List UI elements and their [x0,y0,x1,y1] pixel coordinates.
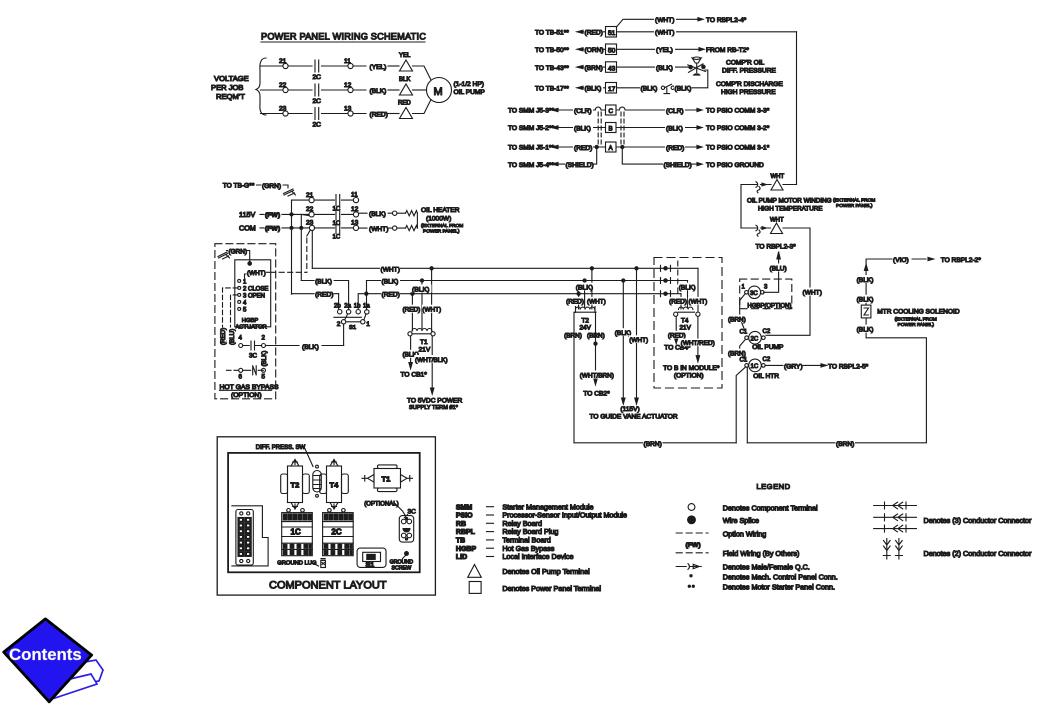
transformer T2 layout [281,460,310,510]
svg-text:(GRN): (GRN) [262,183,281,190]
wire V1 21 feed down [291,200,293,294]
terminal 22b [309,212,314,217]
svg-text:TO RBPL2-2*: TO RBPL2-2* [941,257,982,264]
svg-text:A: A [609,145,614,152]
wire triangle2 to motor [413,89,427,91]
wire BRN bottom left [574,442,736,444]
svg-text:22: 22 [279,82,287,89]
terminal 1a [365,310,369,314]
contact 1C row1 [336,195,340,206]
svg-text:TO TB-43**: TO TB-43** [535,65,569,72]
svg-text:OIL PUMP MOTOR WINDING: OIL PUMP MOTOR WINDING [747,198,832,205]
svg-text:COMP'R OIL: COMP'R OIL [726,60,765,67]
svg-text:OIL HTR: OIL HTR [753,373,779,380]
pole 1 [361,320,365,324]
svg-text:1C: 1C [751,364,759,370]
svg-text:(BLK): (BLK) [666,125,683,132]
svg-text:(BLK): (BLK) [857,327,874,334]
legend square power panel terminal [469,582,481,594]
svg-text:(FW): (FW) [265,226,280,233]
contact 3C lower pin6 [239,368,243,372]
legend 2 conductor connector symbol [883,539,902,560]
svg-text:(FW): (FW) [686,542,701,549]
svg-text:VOLTAGE: VOLTAGE [214,74,249,83]
svg-text:(BRN): (BRN) [836,441,854,448]
svg-text:WHT: WHT [771,174,785,180]
QC male/female bottom [751,225,771,236]
svg-text:(YEL): (YEL) [370,64,387,71]
junction V1-COM [290,226,293,229]
svg-text:TO RBPL2-4*: TO RBPL2-4* [706,17,747,24]
terminal box C [606,105,617,115]
svg-text:YEL: YEL [399,53,411,59]
svg-text:(BLK): (BLK) [656,65,673,72]
svg-text:(BLK): (BLK) [302,344,319,351]
terminal box B [606,123,617,133]
terminal 23b [309,225,314,230]
svg-text:(OPTION): (OPTION) [231,392,262,399]
wire phase 1 [261,65,367,67]
svg-text:TO SMM J5-1**: TO SMM J5-1** [508,145,554,152]
label BLK lower [856,325,876,334]
wire WHT bus [312,267,698,269]
terminal box 51 [606,27,617,38]
svg-text:(GRN): (GRN) [229,248,247,255]
svg-text:(YEL): (YEL) [656,47,673,54]
svg-text:1: 1 [366,321,370,328]
terminal box 43 [606,62,617,73]
switch S1 [334,304,370,331]
HGBP actuator box [235,260,271,327]
wire T4 to CB4 [675,317,677,339]
svg-text:(BLK): (BLK) [615,330,631,337]
svg-text:13: 13 [351,219,359,226]
svg-text:SCREW: SCREW [392,565,412,571]
label (WHT) actuator [245,272,270,278]
wire phase row 21-11 [292,199,354,201]
svg-text:HIGH TEMPERATURE: HIGH TEMPERATURE [758,206,823,213]
junction shield-right [621,145,624,148]
junction shield-left [595,145,598,148]
transformer T2 primary taps [579,268,592,309]
wire WHT down to 2C C2 [766,228,810,335]
legend acronym TB [456,536,551,545]
terminal 12b [353,212,358,217]
svg-text:T4: T4 [330,481,340,490]
wire RED bus [292,293,682,295]
chassis ground symbol top [284,189,296,196]
svg-text:RBPL: RBPL [456,529,476,536]
svg-text:WHT: WHT [770,218,784,224]
junction T2 WHT [590,267,593,270]
transformer T2 winding [574,307,596,313]
svg-text:LEGEND: LEGEND [756,482,790,491]
svg-text:(BRN): (BRN) [644,441,662,448]
svg-text:HGBP: HGBP [456,546,477,553]
svg-text:TO B IN MODULE*: TO B IN MODULE* [663,365,720,372]
wire V4 23 to WHT bus [311,231,313,269]
oil pump terminal RED [400,108,413,119]
svg-text:12: 12 [351,206,359,213]
svg-text:TO TB-17**: TO TB-17** [535,86,569,93]
wire 2C C1 to 1C C1 [740,340,746,360]
terminal 2b [338,310,342,314]
contact 3C lower pin5 [262,368,266,372]
svg-text:(RED): (RED) [585,30,603,37]
svg-text:(1000W): (1000W) [426,216,451,223]
wire GRY to RBPL2-5 [765,364,821,366]
svg-text:BLK: BLK [399,77,410,83]
svg-text:21V: 21V [419,347,431,354]
svg-text:(CLR): (CLR) [666,108,684,115]
svg-text:(WHT/BRN): (WHT/BRN) [580,372,614,379]
legend option wiring symbol [676,532,708,534]
wire to triangle 2 [388,89,399,91]
arm 1-1a [364,314,366,320]
svg-text:C2: C2 [763,357,771,363]
contact 3C pin4 [239,344,243,348]
svg-text:2b: 2b [334,304,341,310]
svg-text:DIFF. PRESSURE: DIFF. PRESSURE [722,68,776,75]
wire WHT to RBPL2-4 [617,19,698,27]
svg-text:TO RBPL2-5*: TO RBPL2-5* [828,363,869,370]
svg-text:Denotes Motor Starter Panel Co: Denotes Motor Starter Panel Conn. [723,583,835,592]
svg-text:(SHIELD): (SHIELD) [566,162,594,169]
svg-text:21: 21 [279,58,287,65]
ground lug symbol [321,559,326,568]
HGBP option dashed box [740,279,792,309]
svg-text:3 OPEN: 3 OPEN [243,293,265,299]
wire phase 2 [261,89,367,91]
svg-text:HGBP: HGBP [242,318,259,324]
svg-text:(WHT): (WHT) [629,337,648,344]
junction T2 RED [577,292,580,295]
svg-text:2C: 2C [313,98,322,105]
svg-text:TO TB-G**: TO TB-G** [223,183,255,190]
svg-text:PSIO: PSIO [456,513,473,520]
svg-text:11: 11 [344,58,351,65]
terminal 13 [348,111,353,116]
svg-text:TO SMM J5-3**: TO SMM J5-3** [508,108,554,115]
svg-text:2 CLOSE: 2 CLOSE [243,286,268,292]
svg-text:(WHT): (WHT) [381,266,400,273]
contactor 2C layout [323,509,354,556]
svg-text:5: 5 [243,307,247,313]
svg-text:23: 23 [306,220,314,227]
connector 3cond WHT bus [661,265,671,271]
pole 2 [341,320,345,324]
wire GRN to actuator [227,251,250,262]
svg-text:(WHT): (WHT) [247,270,266,277]
wire T1 to CB1 [410,336,412,362]
terminal box 17 [606,83,617,94]
wire 1C right drop [746,367,748,443]
junction T1 RED [411,292,414,295]
label BLK mid [856,295,876,304]
contactor 1C layout [282,509,313,556]
svg-text:51: 51 [608,30,616,37]
svg-text:(WHT/RED): (WHT/RED) [681,340,715,347]
svg-text:FROM RB-T2*: FROM RB-T2* [706,47,749,54]
svg-text:TO TB-50**: TO TB-50** [535,47,569,54]
terminal 2a [346,310,350,314]
svg-text:(BLK): (BLK) [315,279,332,286]
svg-text:1: 1 [243,279,247,285]
svg-text:(RED): (RED) [566,299,584,306]
contactor coil 2C oil pump [749,331,762,344]
label (BLU) vertical [227,328,236,346]
svg-text:(SHIELD): (SHIELD) [664,162,692,169]
svg-text:(BLU): (BLU) [229,329,236,345]
wire to triangle 1 [388,65,399,67]
svg-text:(BLK): (BLK) [382,279,399,286]
svg-text:OIL PUMP: OIL PUMP [454,89,486,96]
svg-text:S1: S1 [349,325,356,331]
contact 3C lower crossed [243,366,264,375]
svg-text:2C: 2C [313,122,322,129]
wire T2 secondary to CB2 [595,313,597,379]
svg-text:TO SMM J5-2**: TO SMM J5-2** [508,125,554,132]
svg-text:3C: 3C [750,291,758,297]
wire 12 to heater [359,212,406,214]
svg-text:TO GUIDE VANE ACTUATOR: TO GUIDE VANE ACTUATOR [590,414,678,421]
svg-text:(ORN): (ORN) [585,47,604,54]
svg-text:TO PSIO COMM 3-2*: TO PSIO COMM 3-2* [706,125,770,132]
legend acronym RBPL [456,527,558,536]
contact 2C phase2 [315,84,319,96]
hot gas bypass option dashed box [215,244,276,399]
connector 3cond BLK bus [661,278,671,284]
svg-text:(BRN): (BRN) [728,316,746,323]
junction V1-115V [290,213,293,216]
svg-text:MTR COOLING SOLENOID: MTR COOLING SOLENOID [877,309,960,316]
svg-text:(BLK): (BLK) [576,284,593,291]
svg-text:COM: COM [239,224,256,233]
svg-text:(BLK): (BLK) [857,297,874,304]
svg-text:PER JOB: PER JOB [211,83,244,92]
twisted pair bump left [595,107,601,110]
actuator pin 4 [238,300,241,303]
svg-text:3C: 3C [249,353,257,360]
transformer T4 layout [320,460,349,510]
svg-text:(115V): (115V) [620,406,639,413]
pressure switch S-DP comp'r oil diff pressure [688,57,706,75]
contact 3C bars [243,341,262,350]
svg-text:(BRN): (BRN) [564,333,582,340]
svg-text:(WHT): (WHT) [369,226,388,233]
wire 13 to heater [359,227,406,229]
chassis ground symbol HGBP [218,252,230,259]
legend male female QC symbol [676,564,701,570]
svg-text:T1: T1 [420,339,428,346]
wire 3C pin1 to 2C C1 [740,294,746,332]
svg-text:HIGH PRESSURE: HIGH PRESSURE [721,89,776,96]
wire RED dashed actuator pin2 [223,288,238,341]
heater right vertical [416,213,418,228]
svg-text:(BLK): (BLK) [369,211,386,218]
brace [256,58,266,115]
svg-text:5: 5 [262,374,266,381]
wire 1b jog to red bus [358,294,366,310]
svg-text:(OPTIONAL): (OPTIONAL) [364,502,398,508]
svg-text:(RED): (RED) [574,145,592,152]
svg-text:TO 5VDC POWER: TO 5VDC POWER [407,398,462,405]
wire BLK left feed to S1 [301,281,348,310]
svg-text:TB: TB [456,538,465,545]
wire winding left vertical [740,185,742,229]
svg-text:2: 2 [262,335,266,342]
svg-text:(WHT): (WHT) [655,30,674,37]
wire BRN bottom right to solenoid [747,338,926,443]
svg-text:TO PSIO COMM 3-1*: TO PSIO COMM 3-1* [706,145,770,152]
svg-text:TO CB2*: TO CB2* [583,391,610,398]
svg-text:(WHT): (WHT) [422,307,441,314]
svg-text:(BRN): (BRN) [585,65,603,72]
wire to triangle 3 [388,113,399,115]
svg-text:Local Interface Device: Local Interface Device [502,552,573,561]
legend component terminal symbol [688,504,695,511]
actuator pin 1 [238,279,241,282]
legend 3 conductor connector symbol [874,502,917,532]
svg-text:C: C [609,108,614,115]
wire BLU dashed actuator pin3 [231,295,238,341]
svg-text:21: 21 [306,192,314,199]
svg-text:Denotes (2) Conductor Connecto: Denotes (2) Conductor Connector [924,549,1032,558]
svg-text:C2: C2 [763,329,771,335]
svg-text:11: 11 [351,192,358,199]
contact 2C phase3 [315,108,319,120]
relay coil 3C [748,286,760,298]
svg-text:C1: C1 [740,330,748,336]
wire solenoid vertical [866,259,926,338]
svg-text:Contents: Contents [9,645,82,664]
legend acronym PSIO [456,511,627,520]
svg-text:(BLK): (BLK) [261,351,268,367]
wire T1 to 5VDC supply [431,336,433,388]
svg-text:LID: LID [456,554,467,561]
contact 2C phase1 [315,60,319,72]
svg-text:(BLK): (BLK) [675,86,692,93]
svg-text:Denotes Component Terminal: Denotes Component Terminal [723,503,818,512]
svg-text:4: 4 [243,300,247,306]
motor M1 oil pump [427,78,452,103]
label BLK upper [856,275,876,284]
wire T4 to B in module [697,317,699,357]
svg-text:OIL HEATER: OIL HEATER [421,207,460,214]
svg-text:6: 6 [239,374,243,381]
svg-text:DIFF. PRESS. SW: DIFF. PRESS. SW [256,445,306,451]
svg-text:(EXTERNAL FROM: (EXTERNAL FROM [833,198,875,204]
terminal board layout [232,506,268,566]
svg-text:POWER PANEL): POWER PANEL) [898,322,935,328]
title: POWER PANEL WIRING SCHEMATIC [261,32,426,43]
svg-text:(WHT/BLK): (WHT/BLK) [415,357,448,364]
wire S1 pole down to BLK option [343,324,345,346]
svg-text:S1: S1 [366,560,375,569]
svg-text:POWER PANEL WIRING SCHEMATIC: POWER PANEL WIRING SCHEMATIC [261,32,426,42]
svg-text:TO RBPL2-3*: TO RBPL2-3* [756,244,797,251]
wire RED feed down to 2b [338,294,340,310]
svg-text:(RED): (RED) [370,112,388,119]
svg-text:Denotes (3) Conductor Connecto: Denotes (3) Conductor Connector [924,516,1032,525]
legend acronym LID [456,552,574,561]
junction T2 BLK [583,279,586,282]
actuator pin 5 [238,307,241,310]
pressure switch S-HP comp'r discharge high pressure [661,86,664,89]
label ground screw [405,552,409,556]
wire 23 dashed option drop [307,230,311,236]
svg-text:(RED): (RED) [669,299,687,306]
svg-text:T2: T2 [291,481,300,490]
svg-text:(WHT): (WHT) [803,290,822,297]
wire BLK bus [367,280,688,282]
actuator pin 2 CLOSE [238,286,241,289]
wire option WHT dashed to bus [271,271,307,273]
legend acronym RB [456,519,542,528]
svg-text:(BLK): (BLK) [574,125,591,132]
svg-text:43: 43 [608,65,616,72]
svg-text:23: 23 [279,106,287,113]
svg-text:2C: 2C [751,336,759,342]
svg-text:(BLK): (BLK) [585,86,602,93]
terminal 23 [283,111,288,116]
S1 link 2-1 [346,321,361,323]
svg-text:(RED): (RED) [315,292,333,299]
legend mach control panel conn symbol [690,575,692,577]
svg-text:ACTUATOR: ACTUATOR [235,325,266,331]
terminal 21b [309,198,314,203]
wire guide vane WHT [636,268,638,398]
dashed box TO B IN MODULE option [654,258,722,389]
heater element R-top [406,211,418,216]
svg-text:TO PSIO COMM 3-3*: TO PSIO COMM 3-3* [706,108,770,115]
svg-text:3: 3 [764,284,768,290]
svg-text:RED: RED [398,101,411,107]
legend acronym SMM [456,502,594,511]
svg-text:POWER PANEL): POWER PANEL) [836,203,873,209]
svg-text:(FW): (FW) [265,212,280,219]
svg-text:13: 13 [344,106,352,113]
svg-text:3C: 3C [408,509,417,516]
svg-text:Denotes Male/Female Q.C.: Denotes Male/Female Q.C. [723,562,810,571]
terminal box A [606,142,617,152]
wire 1C left drop [736,367,745,443]
legend wire splice symbol [688,516,696,524]
svg-text:Field Wiring (By Others): Field Wiring (By Others) [723,549,800,558]
svg-text:Denotes Mach. Control Panel Co: Denotes Mach. Control Panel Conn. [723,572,838,581]
svg-text:RB: RB [456,521,466,528]
junction 1a-1b-RED [365,292,368,295]
wire dashed lower to pin5 [227,369,239,371]
svg-text:SUPPLY TERM #1*: SUPPLY TERM #1* [409,405,459,411]
svg-text:TO SMM J5-4**: TO SMM J5-4** [508,162,554,169]
label BRN left/right T2 [564,331,583,340]
contents button [4,619,103,702]
svg-text:(RED): (RED) [403,307,421,314]
svg-text:T1: T1 [382,475,391,484]
svg-text:Denotes Oil Pump Terminal: Denotes Oil Pump Terminal [502,567,590,576]
transformer T1 primary taps [412,268,431,331]
component layout outer box [217,437,435,595]
contact 1C row2 [336,209,340,220]
svg-text:B: B [609,126,613,133]
wire right vertical from 51 [796,32,798,185]
diff pressure switch layout [313,465,322,497]
svg-text:1b: 1b [354,304,361,310]
svg-text:COMP'R DISCHARGE: COMP'R DISCHARGE [716,81,783,88]
svg-text:C1: C1 [740,357,748,363]
wire 1a up to BLK bus [366,281,368,310]
